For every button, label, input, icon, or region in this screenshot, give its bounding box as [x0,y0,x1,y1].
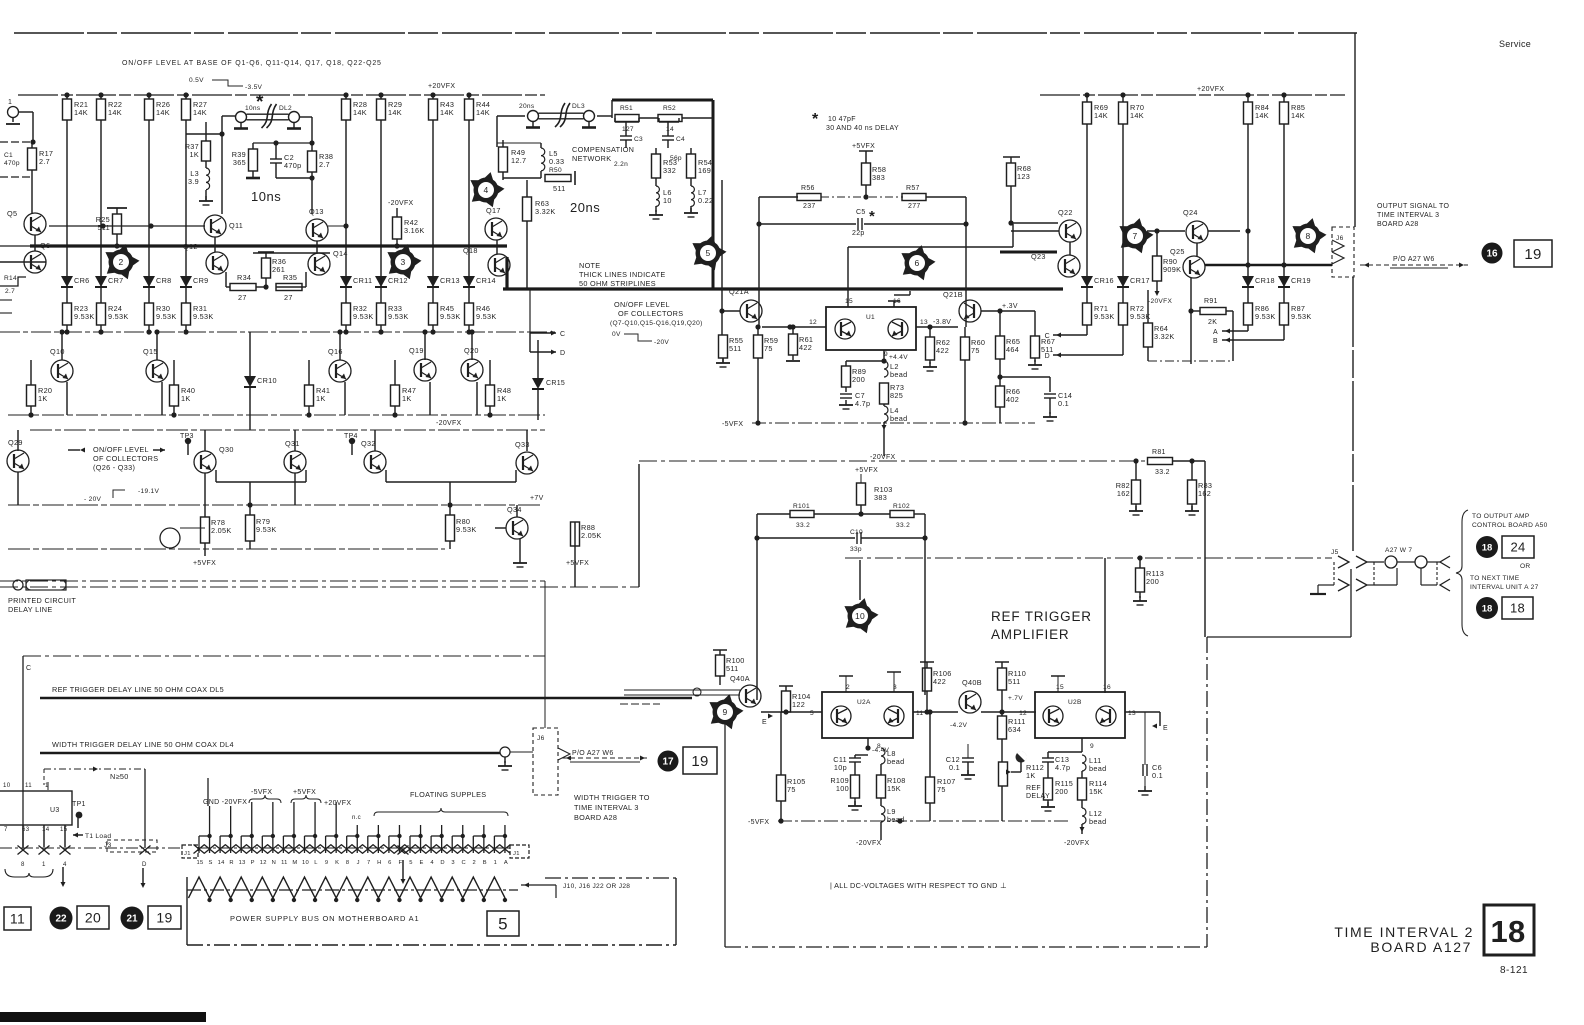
svg-text:CR13: CR13 [440,276,460,285]
svg-text:22p: 22p [852,230,865,237]
svg-text:383: 383 [874,493,887,502]
svg-text:50 OHM STRIPLINES: 50 OHM STRIPLINES [579,279,656,288]
svg-text:15: 15 [1056,684,1064,691]
svg-text:4.7p: 4.7p [1055,763,1070,772]
svg-text:GND -20VFX: GND -20VFX [203,799,247,806]
svg-text:21: 21 [126,914,138,925]
svg-text:NOTE: NOTE [579,261,600,270]
svg-text:5: 5 [409,860,413,866]
svg-text:E: E [762,719,767,726]
svg-text:127: 127 [622,126,634,133]
svg-text:9.53K: 9.53K [108,312,129,321]
svg-text:(Q7-Q10,Q15-Q16,Q19,Q20): (Q7-Q10,Q15-Q16,Q19,Q20) [610,320,703,327]
svg-text:6: 6 [914,258,919,268]
svg-text:Q30: Q30 [219,445,234,454]
svg-text:14K: 14K [1094,111,1108,120]
svg-text:422: 422 [933,677,946,686]
svg-text:-3.8V: -3.8V [933,319,951,326]
svg-text:75: 75 [971,346,980,355]
svg-text:A27 W 7: A27 W 7 [1385,547,1412,554]
svg-text:REF TRIGGER DELAY LINE 50 OHM: REF TRIGGER DELAY LINE 50 OHM COAX DL5 [52,685,224,694]
svg-text:+20VFX: +20VFX [1197,86,1224,93]
svg-text:-5VFX: -5VFX [748,819,769,826]
svg-text:15: 15 [60,826,68,833]
svg-text:1: 1 [494,860,498,866]
svg-text:3.32K: 3.32K [535,207,556,216]
svg-text:16: 16 [1486,249,1498,260]
svg-text:16: 16 [1103,684,1111,691]
svg-text:*: * [812,111,819,128]
svg-text:634: 634 [1008,725,1021,734]
svg-text:3.32K: 3.32K [1154,332,1175,341]
svg-text:5: 5 [705,248,710,258]
svg-text:2.7: 2.7 [39,157,50,166]
svg-text:511: 511 [726,664,739,673]
svg-text:200: 200 [852,375,865,384]
svg-text:2.2n: 2.2n [614,161,628,168]
svg-text:+5VFX: +5VFX [293,789,316,796]
svg-text:-3.5V: -3.5V [245,84,263,91]
svg-text:11: 11 [10,911,25,927]
svg-text:14K: 14K [388,108,402,117]
svg-text:511: 511 [553,184,566,193]
svg-text:BOARD A28: BOARD A28 [574,813,617,822]
svg-text:TIME INTERVAL 3: TIME INTERVAL 3 [574,803,639,812]
svg-text:0.1: 0.1 [1152,771,1163,780]
svg-text:U3: U3 [50,807,60,814]
svg-text:169: 169 [698,166,711,175]
svg-text:-20VFX: -20VFX [856,840,882,847]
svg-text:162: 162 [1117,489,1130,498]
svg-text:DL3: DL3 [572,103,585,110]
svg-text:0.22: 0.22 [698,196,713,205]
svg-text:R91: R91 [1204,298,1218,305]
svg-text:J: J [357,860,360,866]
svg-text:123: 123 [1017,172,1030,181]
svg-text:2.05K: 2.05K [581,531,602,540]
svg-text:D: D [440,860,445,866]
svg-text:TP3: TP3 [180,433,194,440]
svg-text:14K: 14K [1255,111,1269,120]
svg-text:14K: 14K [74,108,88,117]
svg-text:11: 11 [916,710,923,717]
svg-text:14K: 14K [440,108,454,117]
svg-text:422: 422 [799,343,812,352]
svg-text:0.1: 0.1 [949,763,960,772]
svg-text:-20VFX: -20VFX [870,454,896,461]
svg-text:ON/OFF LEVEL: ON/OFF LEVEL [614,300,670,309]
svg-text:REF: REF [1026,785,1041,792]
svg-text:Q25: Q25 [1170,247,1185,256]
svg-text:+5VFX: +5VFX [852,143,875,150]
svg-text:14K: 14K [353,108,367,117]
svg-text:422: 422 [936,346,949,355]
svg-text:8: 8 [1305,231,1310,241]
svg-text:bead: bead [887,757,904,766]
svg-text:1K: 1K [1026,771,1036,780]
svg-text:K: K [335,860,339,866]
svg-text:Q31: Q31 [285,439,300,448]
svg-text:-20VFX: -20VFX [1148,298,1172,305]
svg-text:1K: 1K [497,394,507,403]
svg-text:9.53K: 9.53K [353,312,374,321]
svg-text:-4.2V: -4.2V [950,722,968,729]
svg-text:OR: OR [1520,563,1531,570]
svg-text:1: 1 [42,861,46,868]
svg-text:13: 13 [920,319,928,326]
svg-text:-20VFX: -20VFX [436,420,462,427]
svg-text:D: D [142,861,147,868]
svg-text:Service: Service [1499,39,1531,49]
svg-text:12: 12 [260,860,267,866]
svg-text:10: 10 [663,196,672,205]
svg-text:Q40B: Q40B [962,678,982,687]
svg-text:C5: C5 [856,209,866,216]
svg-text:10 47pF: 10 47pF [828,116,856,123]
svg-text:CR15: CR15 [546,380,565,387]
svg-text:Q11: Q11 [229,221,243,230]
svg-text:R56: R56 [801,185,815,192]
svg-text:+7V: +7V [530,495,544,502]
svg-text:R: R [229,860,234,866]
svg-text:C: C [560,331,565,338]
svg-text:1: 1 [8,99,12,106]
svg-text:383: 383 [872,173,885,182]
svg-text:CR7: CR7 [108,276,124,285]
svg-text:(Q26 - Q33): (Q26 - Q33) [93,463,135,472]
svg-text:332: 332 [663,166,676,175]
svg-text:14: 14 [666,126,674,133]
svg-text:10p: 10p [834,763,847,772]
svg-text:15K: 15K [1089,787,1103,796]
svg-text:CR8: CR8 [156,276,172,285]
svg-text:-5VFX: -5VFX [722,421,743,428]
svg-text:7: 7 [4,826,8,833]
svg-text:13: 13 [1128,710,1136,717]
svg-text:3.16K: 3.16K [404,226,425,235]
svg-text:OF COLLECTORS: OF COLLECTORS [618,309,683,318]
svg-text:C4: C4 [676,136,685,143]
svg-text:4: 4 [483,185,488,195]
svg-text:R102: R102 [893,503,910,510]
svg-text:4.7p: 4.7p [855,399,870,408]
svg-text:1K: 1K [402,394,412,403]
svg-text:-20V: -20V [654,339,669,346]
svg-text:ON/OFF LEVEL AT BASE OF Q1-Q6,: ON/OFF LEVEL AT BASE OF Q1-Q6, Q11-Q14, … [122,60,382,67]
svg-text:1K: 1K [189,150,199,159]
svg-text:INTERVAL UNIT A 27: INTERVAL UNIT A 27 [1470,584,1539,591]
svg-text:J5: J5 [1331,549,1339,556]
svg-text:+.3V: +.3V [1002,303,1018,310]
svg-text:9.53K: 9.53K [256,525,277,534]
svg-text:-5VFX: -5VFX [251,789,272,796]
svg-text:9: 9 [722,707,727,717]
svg-text:U2A: U2A [857,699,871,706]
svg-text:WIDTH TRIGGER TO: WIDTH TRIGGER TO [574,793,650,802]
svg-text:FLOATING SUPPLES: FLOATING SUPPLES [410,790,486,799]
svg-text:14: 14 [218,860,226,866]
svg-text:BOARD A28: BOARD A28 [1377,221,1419,228]
svg-text:bead: bead [1089,764,1106,773]
svg-text:- 20V: - 20V [84,496,102,503]
svg-text:J1: J1 [184,851,191,857]
svg-text:J1: J1 [513,851,520,857]
svg-text:J6: J6 [1336,235,1344,242]
svg-text:C: C [462,860,467,866]
svg-text:27: 27 [284,293,293,302]
svg-text:A: A [1213,329,1218,336]
svg-text:N: N [272,860,277,866]
svg-text:75: 75 [764,344,773,353]
svg-text:17: 17 [662,757,674,768]
svg-text:Q19: Q19 [409,346,424,355]
svg-text:T1 Load: T1 Load [85,833,111,840]
svg-text:9.53K: 9.53K [74,312,95,321]
svg-text:9.53K: 9.53K [440,312,461,321]
svg-text:20: 20 [85,910,101,926]
svg-text:M: M [292,860,297,866]
svg-text:2.7: 2.7 [5,288,15,295]
svg-text:14K: 14K [1291,111,1305,120]
svg-text:E: E [419,860,423,866]
svg-text:S: S [208,860,212,866]
svg-text:511: 511 [729,344,742,353]
svg-text:A: A [504,860,508,866]
svg-text:27: 27 [238,293,247,302]
svg-text:464: 464 [1006,345,1019,354]
svg-text:R52: R52 [663,105,676,112]
svg-text:Q22: Q22 [1058,208,1073,217]
svg-text:Q5: Q5 [7,209,17,218]
svg-text:H: H [377,860,382,866]
svg-text:R50: R50 [549,167,562,174]
svg-text:DELAY: DELAY [1026,793,1050,800]
svg-text:8-121: 8-121 [1500,965,1528,976]
svg-text:R14: R14 [4,275,17,282]
svg-text:bead: bead [1089,817,1106,826]
svg-text:2.7: 2.7 [319,160,330,169]
svg-text:+20VFX: +20VFX [324,800,351,807]
svg-text:9.53K: 9.53K [388,312,409,321]
svg-text:Q15: Q15 [143,347,158,356]
svg-text:CR11: CR11 [353,276,372,285]
svg-text:75: 75 [937,785,946,794]
svg-text:33.2: 33.2 [796,522,810,529]
svg-text:-20VFX: -20VFX [1064,840,1090,847]
svg-text:14K: 14K [1130,111,1144,120]
svg-text:75: 75 [787,785,796,794]
svg-text:12: 12 [809,319,817,326]
svg-text:R101: R101 [793,503,810,510]
svg-text:14K: 14K [193,108,207,117]
svg-text:C10: C10 [850,529,863,536]
svg-text:2: 2 [846,684,850,691]
svg-text:15: 15 [196,860,203,866]
svg-text:2K: 2K [1208,319,1217,326]
svg-text:P/O A27 W6: P/O A27 W6 [572,750,614,757]
svg-text:+5VFX: +5VFX [566,560,589,567]
svg-text:162: 162 [1198,489,1211,498]
svg-text:B: B [483,860,487,866]
svg-text:18: 18 [1482,603,1493,614]
svg-text:NETWORK: NETWORK [572,154,611,163]
svg-text:POWER SUPPLY BUS ON MOTHERBOAR: POWER SUPPLY BUS ON MOTHERBOARD A1 [230,914,419,923]
svg-text:Q33: Q33 [515,440,530,449]
svg-text:9: 9 [325,860,329,866]
svg-text:C1: C1 [4,152,13,159]
svg-text:8: 8 [21,861,25,868]
svg-text:F: F [399,860,403,866]
svg-text:bead: bead [890,370,907,379]
svg-text:10ns: 10ns [251,189,281,204]
svg-text:CR17: CR17 [1130,276,1150,285]
svg-text:C: C [1045,333,1050,340]
svg-text:14K: 14K [156,108,170,117]
svg-text:R35: R35 [283,273,297,282]
svg-text:825: 825 [890,391,903,400]
svg-text:Q13: Q13 [309,207,324,216]
svg-text:18: 18 [1482,542,1493,553]
svg-text:200: 200 [1146,577,1159,586]
svg-text:909K: 909K [1163,265,1181,274]
svg-text:DELAY LINE: DELAY LINE [8,605,53,614]
svg-text:24: 24 [1510,540,1525,555]
svg-text:122: 122 [792,700,805,709]
svg-text:8: 8 [346,860,350,866]
svg-text:19: 19 [156,910,172,926]
svg-text:33p: 33p [850,546,862,553]
svg-text:20ns: 20ns [570,200,600,215]
svg-text:5: 5 [810,710,814,717]
svg-text:3: 3 [400,257,405,267]
svg-text:-20VFX: -20VFX [388,200,414,207]
svg-text:511: 511 [1008,677,1021,686]
svg-text:PRINTED CIRCUIT: PRINTED CIRCUIT [8,596,76,605]
svg-text:33.2: 33.2 [896,522,910,529]
svg-text:Q24: Q24 [1183,208,1198,217]
svg-text:2.05K: 2.05K [211,526,232,535]
svg-text:TP4: TP4 [344,433,358,440]
svg-text:D: D [1045,353,1050,360]
svg-text:10: 10 [855,611,865,621]
svg-text:CR12: CR12 [388,276,408,285]
svg-text:19: 19 [1524,246,1541,263]
svg-text:TO OUTPUT AMP: TO OUTPUT AMP [1472,513,1530,520]
svg-text:11: 11 [25,782,32,789]
svg-text:Q40A: Q40A [730,674,750,683]
svg-text:4: 4 [430,860,434,866]
svg-text:REF TRIGGER: REF TRIGGER [991,609,1092,624]
svg-text:13: 13 [239,860,246,866]
svg-text:n.c: n.c [352,814,361,821]
svg-text:Q34: Q34 [507,505,522,514]
svg-text:P: P [251,860,255,866]
svg-text:N≥50: N≥50 [110,772,129,781]
svg-text:L: L [314,860,318,866]
svg-text:Q21B: Q21B [943,290,963,299]
svg-text:CR9: CR9 [193,276,209,285]
svg-text:J10, J16 J22 OR J28: J10, J16 J22 OR J28 [563,883,630,890]
svg-text:2: 2 [473,860,477,866]
svg-text:R57: R57 [906,185,920,192]
svg-text:BOARD A127: BOARD A127 [1370,939,1472,955]
svg-text:Q32: Q32 [361,439,376,448]
svg-text:Q14: Q14 [333,249,348,258]
svg-text:9.53K: 9.53K [1291,312,1312,321]
svg-text:22: 22 [55,914,67,925]
svg-text:1K: 1K [181,394,191,403]
svg-text:Q21A: Q21A [729,287,749,296]
svg-text:20ns: 20ns [519,103,535,110]
svg-text:5: 5 [498,915,508,934]
svg-text:Q29: Q29 [8,438,23,447]
svg-text:6: 6 [388,860,392,866]
svg-text:14: 14 [42,826,50,833]
svg-text:U1: U1 [866,314,875,321]
svg-text:18: 18 [1490,914,1525,949]
svg-text:B: B [1213,338,1218,345]
svg-text:P/O A27 W6: P/O A27 W6 [1393,256,1435,263]
svg-text:C3: C3 [634,136,643,143]
svg-text:470p: 470p [4,160,20,167]
svg-text:12.7: 12.7 [511,156,526,165]
svg-text:18: 18 [1510,601,1525,616]
svg-text:100: 100 [836,784,849,793]
svg-text:+5VFX: +5VFX [855,467,878,474]
svg-text:10: 10 [302,860,309,866]
svg-text:9.53K: 9.53K [156,312,177,321]
svg-text:Q17: Q17 [486,206,501,215]
svg-text:CONTROL BOARD A50: CONTROL BOARD A50 [1472,522,1548,529]
svg-text:ON/OFF LEVEL: ON/OFF LEVEL [93,445,149,454]
svg-text:15: 15 [845,298,853,305]
svg-text:470p: 470p [284,161,301,170]
svg-text:1K: 1K [316,394,326,403]
svg-text:TP1: TP1 [72,801,86,808]
svg-text:277: 277 [908,203,921,210]
svg-text:9.53K: 9.53K [1094,312,1115,321]
svg-text:*: * [869,208,875,225]
svg-text:365: 365 [233,158,246,167]
svg-text:TO NEXT TIME: TO NEXT TIME [1470,575,1520,582]
svg-text:19: 19 [691,753,708,770]
svg-text:9.53K: 9.53K [1255,312,1276,321]
svg-text:AMPLIFIER: AMPLIFIER [991,627,1069,642]
svg-text:9.53K: 9.53K [193,312,214,321]
svg-text:CR10: CR10 [257,376,277,385]
svg-text:U2B: U2B [1068,699,1082,706]
svg-text:WIDTH TRIGGER DELAY LINE 50 OH: WIDTH TRIGGER DELAY LINE 50 OHM COAX DL4 [52,740,234,749]
svg-text:COMPENSATION: COMPENSATION [572,145,634,154]
svg-text:+.7V: +.7V [1008,695,1023,702]
svg-text:3.9: 3.9 [188,177,199,186]
svg-text:+5VFX: +5VFX [193,560,216,567]
svg-text:C: C [26,665,31,672]
svg-text:DL2: DL2 [279,105,292,112]
svg-text:D: D [560,350,565,357]
svg-text:OUTPUT SIGNAL TO: OUTPUT SIGNAL TO [1377,203,1449,210]
svg-text:CR19: CR19 [1291,276,1311,285]
svg-text:CR16: CR16 [1094,276,1114,285]
svg-text:10: 10 [3,782,11,789]
svg-text:12: 12 [1019,710,1027,717]
svg-text:15K: 15K [887,784,901,793]
svg-text:237: 237 [803,203,816,210]
svg-text:11: 11 [281,860,288,866]
svg-text:CR14: CR14 [476,276,496,285]
svg-text:TIME INTERVAL 3: TIME INTERVAL 3 [1377,212,1439,219]
svg-text:CR6: CR6 [74,276,90,285]
